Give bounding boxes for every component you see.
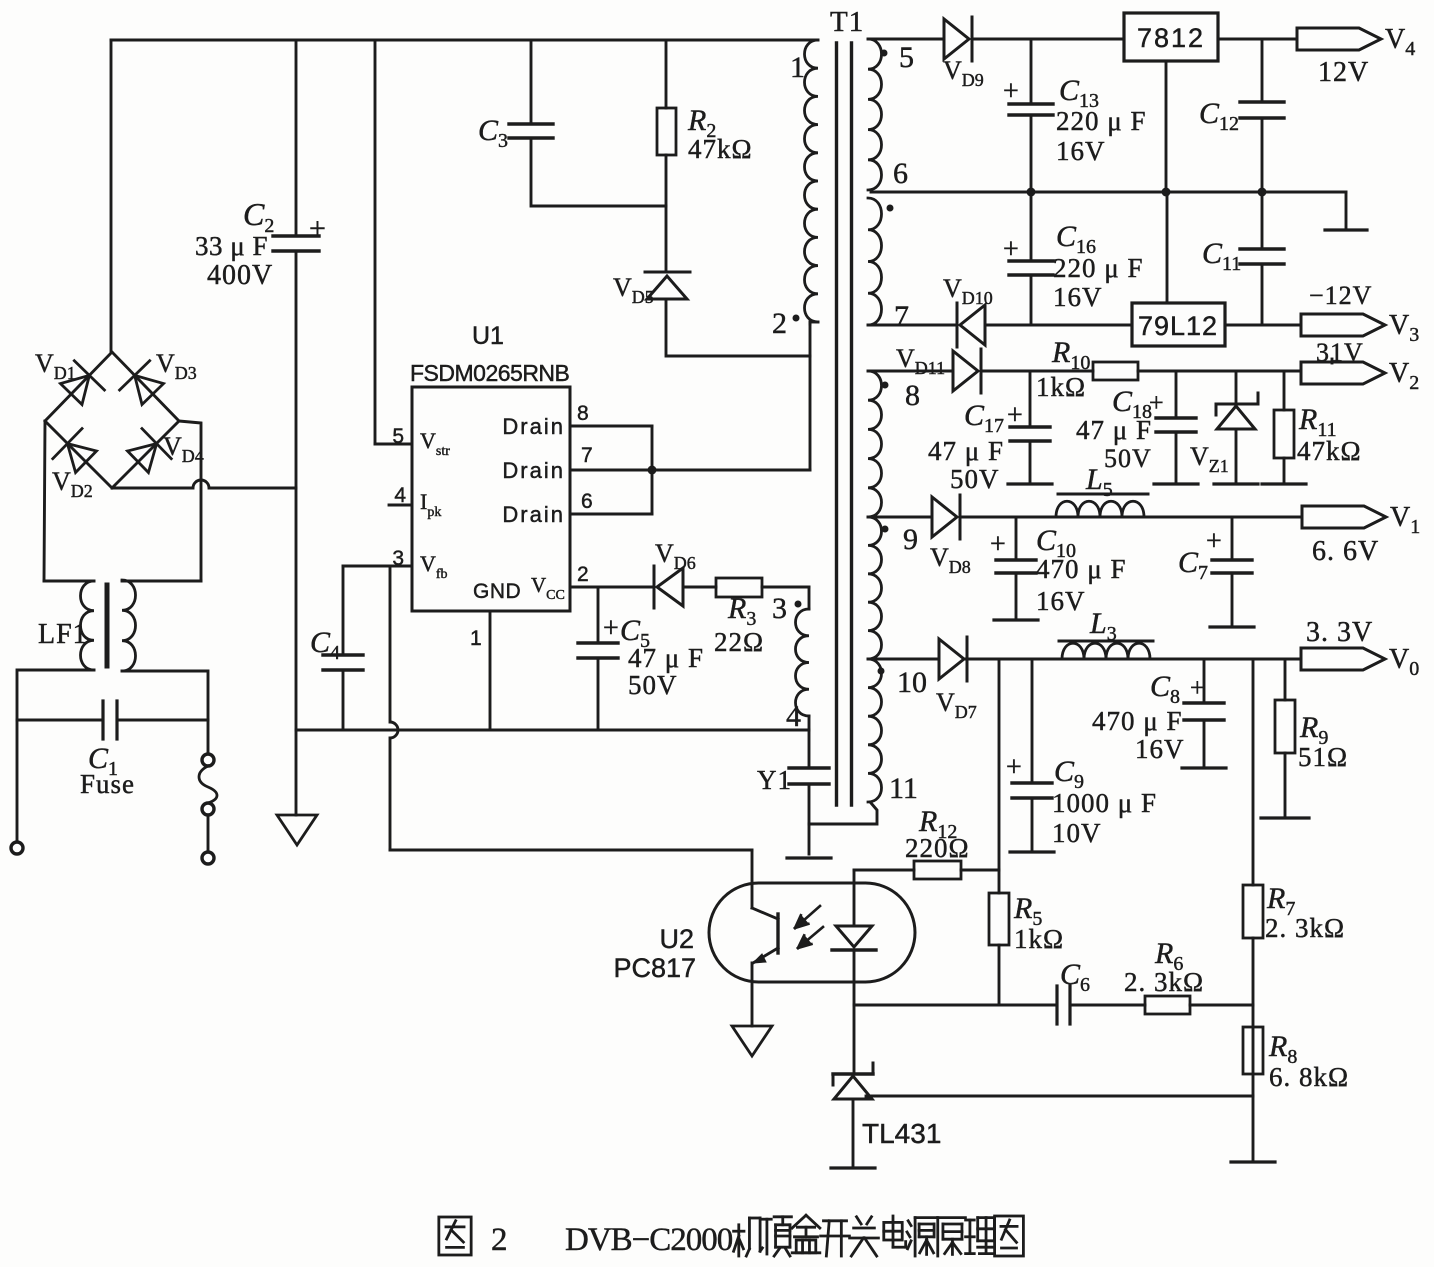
- svg-text:+: +: [1206, 526, 1222, 557]
- svg-text:220 μ F: 220 μ F: [1053, 253, 1144, 283]
- svg-text:7: 7: [581, 444, 593, 467]
- svg-text:U1: U1: [472, 322, 504, 350]
- svg-text:50V: 50V: [1104, 444, 1152, 473]
- svg-text:3: 3: [392, 547, 404, 570]
- svg-text:6. 6V: 6. 6V: [1312, 536, 1379, 567]
- svg-text:Drain: Drain: [502, 414, 565, 439]
- svg-text:+: +: [1190, 673, 1205, 702]
- svg-text:8: 8: [577, 402, 589, 425]
- svg-text:16V: 16V: [1056, 136, 1106, 166]
- svg-text:5: 5: [392, 425, 404, 448]
- svg-text:+: +: [1006, 752, 1022, 783]
- svg-text:7: 7: [894, 300, 909, 333]
- svg-text:470 μ F: 470 μ F: [1092, 706, 1183, 736]
- svg-text:+: +: [1003, 76, 1019, 107]
- svg-text:+: +: [1149, 388, 1164, 417]
- svg-text:220 μ F: 220 μ F: [1056, 106, 1147, 136]
- svg-text:Fuse: Fuse: [80, 769, 135, 799]
- svg-text:Drain: Drain: [502, 458, 565, 483]
- svg-text:TL431: TL431: [862, 1118, 941, 1149]
- svg-text:2: 2: [491, 1222, 508, 1258]
- svg-text:U2: U2: [659, 924, 694, 954]
- svg-text:10V: 10V: [1052, 818, 1102, 848]
- svg-text:9: 9: [903, 523, 918, 556]
- svg-text:16V: 16V: [1036, 586, 1086, 616]
- svg-text:3. 3V: 3. 3V: [1306, 617, 1373, 648]
- svg-text:16V: 16V: [1053, 282, 1103, 312]
- svg-text:16V: 16V: [1135, 734, 1185, 764]
- svg-text:51Ω: 51Ω: [1298, 742, 1348, 772]
- svg-text:DVB−C2000: DVB−C2000: [565, 1222, 733, 1258]
- svg-text:1kΩ: 1kΩ: [1036, 372, 1086, 402]
- svg-text:GND: GND: [473, 580, 521, 603]
- svg-text:50V: 50V: [628, 670, 678, 700]
- svg-text:3: 3: [772, 592, 787, 625]
- svg-text:2. 3kΩ: 2. 3kΩ: [1265, 913, 1345, 943]
- svg-text:79L12: 79L12: [1138, 311, 1218, 341]
- svg-text:47kΩ: 47kΩ: [1297, 436, 1362, 466]
- svg-text:2: 2: [577, 563, 589, 586]
- svg-text:7812: 7812: [1137, 23, 1205, 53]
- svg-text:11: 11: [889, 772, 918, 805]
- svg-text:1: 1: [790, 51, 805, 84]
- svg-text:400V: 400V: [207, 260, 273, 291]
- svg-text:10: 10: [897, 666, 927, 699]
- svg-text:FSDM0265RNB: FSDM0265RNB: [410, 360, 570, 386]
- svg-text:2. 3kΩ: 2. 3kΩ: [1124, 967, 1204, 997]
- svg-text:6: 6: [581, 490, 593, 513]
- svg-text:47 μ F: 47 μ F: [628, 643, 704, 673]
- svg-text:Y1: Y1: [757, 765, 792, 795]
- svg-text:LF1: LF1: [38, 619, 88, 650]
- svg-text:47kΩ: 47kΩ: [688, 134, 753, 164]
- svg-text:47 μ F: 47 μ F: [928, 436, 1004, 466]
- svg-text:8: 8: [905, 379, 920, 412]
- svg-text:12V: 12V: [1318, 57, 1369, 88]
- svg-text:22Ω: 22Ω: [714, 627, 764, 657]
- svg-text:2: 2: [772, 307, 787, 340]
- svg-text:50V: 50V: [950, 464, 1000, 494]
- svg-text:+: +: [603, 613, 619, 644]
- svg-text:+: +: [309, 212, 326, 245]
- svg-text:470 μ F: 470 μ F: [1036, 554, 1127, 584]
- svg-text:−12V: −12V: [1309, 281, 1372, 310]
- svg-text:1000 μ F: 1000 μ F: [1052, 788, 1157, 818]
- svg-text:6: 6: [893, 157, 908, 190]
- svg-text:PC817: PC817: [613, 953, 696, 983]
- svg-text:+: +: [990, 529, 1006, 560]
- svg-text:4: 4: [786, 700, 801, 733]
- svg-text:220Ω: 220Ω: [905, 833, 970, 863]
- svg-text:T1: T1: [830, 6, 864, 38]
- svg-text:Drain: Drain: [502, 502, 565, 527]
- svg-text:4: 4: [394, 484, 406, 507]
- svg-text:+: +: [1007, 400, 1023, 431]
- svg-text:1kΩ: 1kΩ: [1014, 924, 1064, 954]
- svg-text:6. 8kΩ: 6. 8kΩ: [1269, 1062, 1349, 1092]
- svg-text:47 μ F: 47 μ F: [1076, 415, 1152, 445]
- svg-text:5: 5: [899, 41, 914, 74]
- svg-text:1: 1: [470, 627, 482, 650]
- svg-text:33 μ F: 33 μ F: [195, 231, 268, 261]
